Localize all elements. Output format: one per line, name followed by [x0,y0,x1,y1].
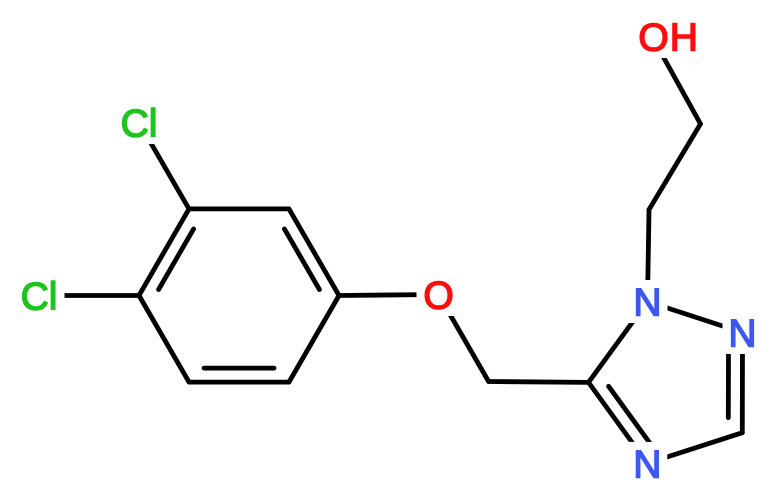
svg-text:N: N [633,282,661,325]
svg-text:Cl: Cl [121,103,158,146]
svg-text:O: O [423,275,453,318]
svg-text:Cl: Cl [21,276,58,319]
svg-text:N: N [728,313,756,356]
svg-text:N: N [633,443,661,486]
svg-text:OH: OH [638,17,699,60]
